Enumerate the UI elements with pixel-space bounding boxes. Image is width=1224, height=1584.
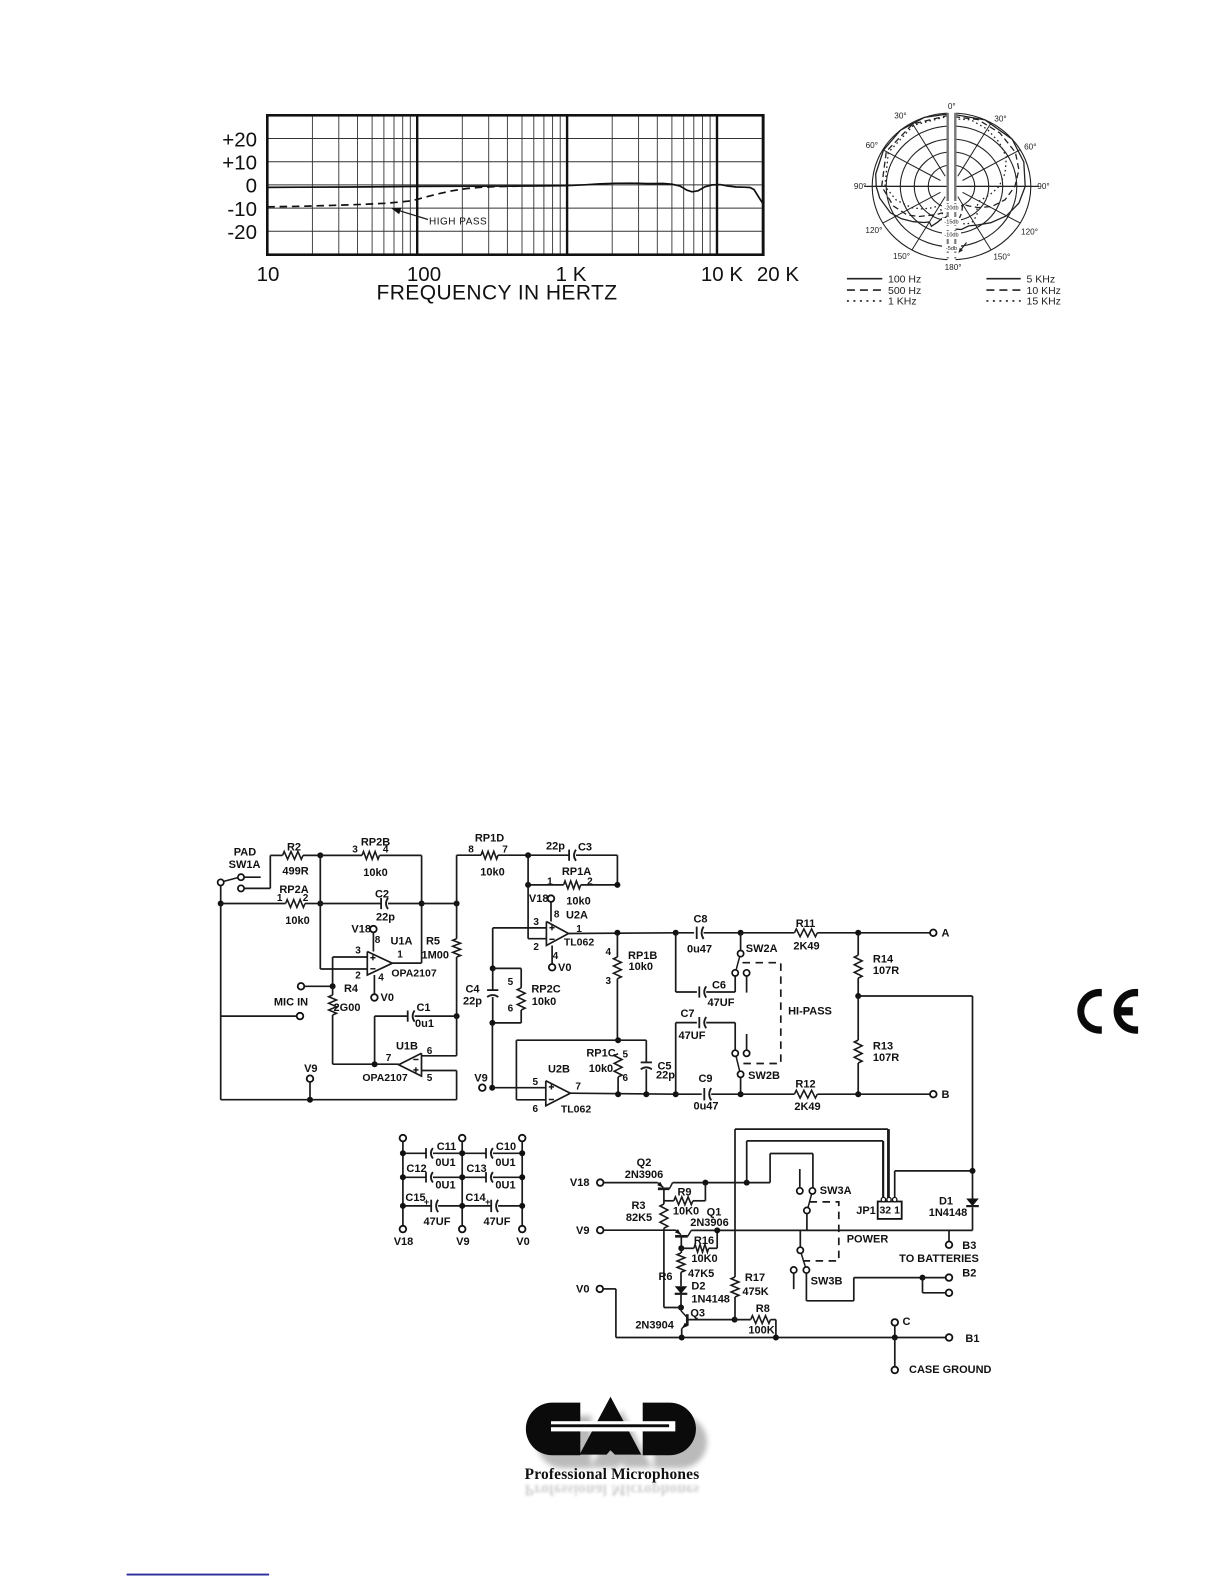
svg-text:2: 2 bbox=[587, 877, 593, 888]
node Q1 base/R16/R6 junction bbox=[678, 1245, 684, 1251]
svg-text:Professional Microphones: Professional Microphones bbox=[525, 1466, 700, 1483]
svg-text:C13: C13 bbox=[466, 1163, 486, 1175]
svg-text:1N4148: 1N4148 bbox=[929, 1207, 968, 1219]
svg-text:47UF: 47UF bbox=[708, 997, 735, 1009]
terminal B2 upper bbox=[946, 1274, 953, 1281]
svg-text:C11: C11 bbox=[437, 1141, 457, 1153]
svg-text:TL062: TL062 bbox=[561, 1103, 592, 1115]
svg-text:V9: V9 bbox=[474, 1073, 487, 1085]
capacitor C14 47UF bbox=[462, 1205, 491, 1207]
node Q3 collector/R17/R8 junction bbox=[732, 1317, 738, 1323]
wire U2B output bbox=[570, 1093, 675, 1094]
resistor RP1D 10k0 bbox=[456, 855, 458, 903]
svg-text:OPA2107: OPA2107 bbox=[391, 968, 436, 980]
terminal B bbox=[930, 1091, 937, 1098]
terminal MIC IN lower bbox=[297, 1013, 304, 1020]
node C8/SW2A junction bbox=[738, 930, 744, 936]
svg-text:10k0: 10k0 bbox=[285, 915, 309, 927]
capacitor C5 22p bbox=[618, 1039, 646, 1041]
svg-text:R5: R5 bbox=[426, 935, 440, 947]
wire JP1 inner loop bbox=[746, 1141, 748, 1183]
svg-text:RP2C: RP2C bbox=[531, 983, 560, 995]
svg-text:4: 4 bbox=[605, 947, 611, 958]
svg-text:V0: V0 bbox=[558, 962, 571, 974]
svg-text:C8: C8 bbox=[693, 913, 707, 925]
polar dB labels bbox=[942, 204, 961, 211]
svg-text:475K: 475K bbox=[742, 1286, 768, 1298]
wire U1B output to R4 bbox=[333, 1063, 399, 1065]
svg-text:MIC IN: MIC IN bbox=[274, 996, 308, 1008]
capacitor C15 47UF bbox=[403, 1205, 431, 1207]
capacitor C9 0u47 bbox=[676, 1093, 702, 1095]
wire V9 rail to U2B bbox=[491, 1023, 493, 1088]
svg-text:47UF: 47UF bbox=[679, 1030, 706, 1042]
wire U1B pin5 bbox=[422, 1070, 457, 1072]
op-amp U1B OPA2107 bbox=[399, 1053, 422, 1076]
HI-PASS dashed box bbox=[741, 963, 781, 1064]
svg-text:SW2B: SW2B bbox=[748, 1070, 780, 1082]
svg-text:2N3904: 2N3904 bbox=[635, 1319, 674, 1331]
resistor R9 10K0 bbox=[664, 1200, 674, 1202]
svg-text:2: 2 bbox=[355, 971, 361, 982]
svg-text:1M00: 1M00 bbox=[421, 949, 449, 961]
resistor R14 107R bbox=[857, 933, 859, 955]
polar curve 15 KHz (right dotted) bbox=[953, 119, 1007, 224]
wire bottom return bus bbox=[221, 1099, 457, 1101]
CE mark letter E bbox=[1114, 989, 1139, 1034]
svg-text:150°: 150° bbox=[893, 252, 910, 261]
capacitor C8 0u47 bbox=[676, 932, 694, 934]
polar radial spokes bbox=[872, 123, 1031, 250]
svg-text:3: 3 bbox=[533, 917, 539, 928]
svg-text:SW3A: SW3A bbox=[820, 1185, 852, 1197]
terminal V0 of U1A bbox=[371, 994, 378, 1001]
resistor RP2B 10k0 bbox=[320, 854, 362, 856]
capacitor C1 0u1 bbox=[374, 1016, 376, 1064]
resistor R8 100K bbox=[735, 1319, 751, 1321]
svg-text:R2: R2 bbox=[287, 841, 301, 853]
terminal V18 of U1A bbox=[370, 926, 377, 933]
wire RP2B right leg down bbox=[421, 855, 423, 963]
svg-text:R6: R6 bbox=[658, 1271, 672, 1283]
svg-text:10k0: 10k0 bbox=[629, 961, 653, 973]
svg-text:-15db: -15db bbox=[944, 220, 958, 226]
svg-text:C2: C2 bbox=[375, 888, 389, 900]
svg-text:V0: V0 bbox=[516, 1236, 529, 1248]
connector JP1 bbox=[878, 1202, 902, 1219]
svg-text:5: 5 bbox=[623, 1050, 629, 1061]
capacitor C3 22p bbox=[528, 854, 569, 856]
wire U2B pin6 feedback bbox=[516, 1099, 545, 1101]
svg-text:107R: 107R bbox=[873, 1052, 899, 1064]
resistor RP1A 10k0 bbox=[528, 884, 564, 886]
terminal V0 power bbox=[597, 1286, 604, 1293]
svg-text:10k0: 10k0 bbox=[566, 895, 590, 907]
capacitor C6 47UF bbox=[698, 986, 700, 997]
wire JP1 pin3 riser bbox=[882, 1141, 884, 1198]
wire SW2B unused contact stub bbox=[746, 1034, 748, 1050]
svg-text:+: + bbox=[424, 1197, 429, 1207]
wire SW1A top contact stub bbox=[244, 876, 261, 878]
node U2A-out/RP1B junction bbox=[614, 930, 620, 936]
svg-text:90°: 90° bbox=[1037, 182, 1049, 191]
svg-text:-5db: -5db bbox=[946, 246, 957, 252]
node R5 top junction bbox=[454, 901, 460, 907]
svg-text:0U1: 0U1 bbox=[495, 1157, 515, 1169]
decoupling junction dots bbox=[400, 1150, 406, 1156]
wire Q2 base down bbox=[663, 1189, 665, 1204]
svg-text:499R: 499R bbox=[282, 865, 308, 877]
svg-text:CASE GROUND: CASE GROUND bbox=[909, 1364, 992, 1376]
svg-text:V9: V9 bbox=[304, 1063, 317, 1075]
svg-text:B: B bbox=[942, 1089, 950, 1101]
svg-text:R17: R17 bbox=[745, 1272, 765, 1284]
capacitor C12 0U1 bbox=[403, 1176, 426, 1178]
node RP1A right junction bbox=[614, 882, 620, 888]
svg-text:82K5: 82K5 bbox=[626, 1212, 652, 1224]
wire Q1 base down bbox=[680, 1236, 682, 1248]
svg-text:0u1: 0u1 bbox=[415, 1018, 434, 1030]
wire to output B bbox=[858, 1093, 930, 1095]
resistor R17 475K bbox=[731, 1277, 739, 1297]
svg-text:JP1: JP1 bbox=[856, 1205, 876, 1217]
terminal V18 power bbox=[597, 1179, 604, 1186]
node D1 top junction bbox=[970, 1168, 976, 1174]
node V9/bus junction bbox=[307, 1097, 313, 1103]
terminal CASE GROUND bbox=[892, 1367, 899, 1374]
svg-text:B2: B2 bbox=[962, 1268, 976, 1280]
wire SW2B pole down bbox=[740, 1078, 742, 1095]
wire Q1 collector bus bbox=[691, 1229, 972, 1231]
svg-text:10K0: 10K0 bbox=[691, 1253, 717, 1265]
svg-text:HIGH PASS: HIGH PASS bbox=[429, 217, 487, 228]
svg-text:120°: 120° bbox=[865, 226, 882, 235]
wire C6 branch drop bbox=[675, 933, 677, 992]
svg-text:SW3B: SW3B bbox=[811, 1275, 843, 1287]
svg-text:C1: C1 bbox=[416, 1002, 430, 1014]
node D2/Q3 base junction bbox=[678, 1305, 684, 1311]
wire Q2 collector bus bbox=[673, 1182, 771, 1184]
node C4/RP2C bottom junction bbox=[489, 1020, 495, 1026]
resistor RP2A 10k0 bbox=[221, 903, 286, 905]
wire U2A pin4 bbox=[551, 946, 553, 965]
svg-text:5 KHz: 5 KHz bbox=[1027, 273, 1056, 285]
resistor R13 107R bbox=[857, 996, 859, 1040]
svg-text:10: 10 bbox=[257, 263, 280, 286]
wire RP1A left leg bbox=[527, 855, 529, 939]
svg-text:2: 2 bbox=[303, 893, 309, 904]
node R16/collector junction bbox=[714, 1227, 720, 1233]
svg-text:10k0: 10k0 bbox=[363, 867, 387, 879]
wire MIC IN upper to R4 bbox=[304, 985, 332, 987]
switch SW2A bbox=[740, 933, 742, 951]
wire C7 to SW2B contact bbox=[734, 1023, 736, 1050]
svg-text:7: 7 bbox=[575, 1082, 581, 1093]
svg-text:Professional Microphones: Professional Microphones bbox=[525, 1481, 700, 1498]
footer rule bbox=[127, 1574, 270, 1576]
resistor R4 2G00 bbox=[332, 986, 334, 995]
node V9/U2B junction bbox=[489, 1085, 495, 1091]
polar center channel bbox=[947, 108, 955, 262]
wire B2 upper bbox=[923, 1277, 946, 1279]
svg-text:V18: V18 bbox=[570, 1177, 590, 1189]
wire SW3A feed loop bbox=[769, 1154, 771, 1183]
svg-text:120°: 120° bbox=[1021, 227, 1038, 236]
node R9 right junction bbox=[702, 1180, 708, 1186]
transistor Q3 2N3904 bbox=[680, 1308, 682, 1311]
svg-text:R4: R4 bbox=[344, 983, 359, 995]
terminal V9 mid bbox=[479, 1084, 486, 1091]
polar channel bars bbox=[947, 113, 949, 201]
svg-text:0u47: 0u47 bbox=[693, 1101, 718, 1113]
svg-text:V9: V9 bbox=[456, 1236, 469, 1248]
decoupling rail V9 bbox=[459, 1135, 466, 1142]
svg-text:V0: V0 bbox=[381, 992, 394, 1004]
terminal V0 of U2A bbox=[549, 964, 556, 971]
svg-text:10k0: 10k0 bbox=[480, 866, 504, 878]
terminal C bbox=[892, 1319, 899, 1326]
svg-text:R9: R9 bbox=[677, 1186, 691, 1198]
svg-text:C12: C12 bbox=[406, 1163, 426, 1175]
svg-text:47UF: 47UF bbox=[424, 1216, 451, 1228]
node ground bus junction bbox=[892, 1335, 898, 1341]
svg-text:SW2A: SW2A bbox=[746, 943, 778, 955]
svg-text:4: 4 bbox=[378, 973, 384, 984]
wire case ground stub bbox=[894, 1338, 896, 1367]
node R4 top junction bbox=[330, 983, 336, 989]
resistor R3 82K5 bbox=[660, 1204, 668, 1228]
polar curve end arrow bbox=[960, 243, 967, 252]
wire U1A pin2 input bbox=[320, 968, 367, 970]
wire RP2C top link bbox=[493, 967, 522, 969]
wire Q3 collector bbox=[687, 1319, 734, 1321]
polar curve 10 KHz (right dashed) bbox=[953, 117, 1019, 225]
svg-text:30°: 30° bbox=[894, 112, 906, 121]
svg-text:-20: -20 bbox=[227, 221, 257, 244]
svg-text:RP1D: RP1D bbox=[475, 832, 504, 844]
svg-text:90°: 90° bbox=[854, 182, 866, 191]
terminal V18 of U2A bbox=[548, 895, 555, 902]
resistor R11 2K49 bbox=[741, 932, 795, 934]
svg-text:22p: 22p bbox=[376, 911, 395, 923]
svg-text:60°: 60° bbox=[1024, 142, 1036, 151]
wire R3 to D2 junction bbox=[664, 1307, 681, 1309]
frequency response solid curve bbox=[267, 183, 763, 204]
polar grid circles bbox=[872, 113, 1031, 260]
svg-text:HI-PASS: HI-PASS bbox=[788, 1006, 832, 1018]
decoupling rail V18 bbox=[400, 1135, 407, 1142]
resistor RP2C 10k0 bbox=[517, 988, 525, 1010]
wire U1A pin3 input bbox=[333, 956, 368, 958]
node RP2A/C2 junction bbox=[317, 901, 323, 907]
svg-text:4: 4 bbox=[553, 951, 559, 962]
svg-text:0U1: 0U1 bbox=[435, 1180, 455, 1192]
wire battery feed bbox=[858, 995, 972, 997]
diode D1 1N4148 bbox=[972, 1171, 974, 1199]
svg-text:3: 3 bbox=[355, 946, 361, 957]
switch SW1A (PAD) bbox=[218, 879, 224, 885]
svg-text:U1A: U1A bbox=[390, 935, 412, 947]
svg-text:R8: R8 bbox=[756, 1303, 770, 1315]
svg-text:2G00: 2G00 bbox=[334, 1002, 361, 1014]
svg-text:Q2: Q2 bbox=[637, 1157, 652, 1169]
svg-text:R3: R3 bbox=[631, 1200, 645, 1212]
svg-text:C7: C7 bbox=[680, 1008, 694, 1020]
op-amp U2A TL062 bbox=[546, 922, 568, 946]
capacitor C4 22p bbox=[492, 968, 494, 990]
svg-text:22p: 22p bbox=[656, 1070, 675, 1082]
node RP1C bottom junction bbox=[615, 1091, 621, 1097]
svg-text:47K5: 47K5 bbox=[688, 1268, 714, 1280]
svg-text:C3: C3 bbox=[578, 841, 592, 853]
capacitor C13 0U1 bbox=[462, 1176, 486, 1178]
resistor R6 47K5 bbox=[680, 1248, 682, 1253]
svg-text:V9: V9 bbox=[576, 1225, 589, 1237]
svg-text:V18: V18 bbox=[351, 924, 371, 936]
svg-text:A: A bbox=[942, 927, 950, 939]
node R14/R13 junction bbox=[855, 993, 861, 999]
wire MIC IN lower to left bus bbox=[221, 1015, 297, 1017]
svg-text:10k0: 10k0 bbox=[589, 1063, 613, 1075]
resistor R16 10K0 bbox=[681, 1247, 694, 1249]
wire C stub bbox=[894, 1326, 896, 1338]
svg-text:RP1B: RP1B bbox=[628, 950, 657, 962]
wire SW2A unused contact stub bbox=[746, 976, 748, 993]
svg-text:RP1C: RP1C bbox=[586, 1047, 615, 1059]
svg-text:C6: C6 bbox=[712, 979, 726, 991]
svg-text:4: 4 bbox=[383, 845, 389, 856]
svg-text:150°: 150° bbox=[993, 253, 1010, 262]
wire U1A pin8 bbox=[372, 932, 374, 951]
wire U1A pin4 bbox=[373, 975, 375, 994]
logo wordmark bbox=[525, 1481, 700, 1498]
svg-text:SW1A: SW1A bbox=[229, 859, 261, 871]
svg-text:10k0: 10k0 bbox=[532, 996, 556, 1008]
wire JP1 pin1 riser bbox=[894, 1171, 896, 1198]
wire U2A output bbox=[569, 932, 676, 935]
svg-text:2N3906: 2N3906 bbox=[625, 1169, 664, 1181]
svg-text:U2A: U2A bbox=[566, 909, 588, 921]
frequency response chart grid bbox=[267, 115, 763, 254]
terminal B3 bbox=[946, 1242, 953, 1249]
wire U2A pin3 input bbox=[493, 927, 547, 929]
transistor Q1 2N3906 bbox=[676, 1230, 681, 1235]
node B2 junction bbox=[920, 1275, 926, 1281]
svg-text:TO BATTERIES: TO BATTERIES bbox=[899, 1253, 979, 1265]
op-amp U1A OPA2107 bbox=[367, 952, 392, 976]
wire V18 to Q2 emitter bbox=[604, 1182, 658, 1184]
wire to output A bbox=[858, 932, 930, 934]
svg-text:6: 6 bbox=[508, 1003, 514, 1014]
svg-text:22p: 22p bbox=[463, 995, 482, 1007]
node RP1D/C3 junction bbox=[525, 852, 531, 858]
polar legend bbox=[847, 278, 882, 280]
svg-text:OPA2107: OPA2107 bbox=[362, 1072, 407, 1084]
capacitor C2 22p bbox=[320, 903, 381, 905]
node JP1 riser junction bbox=[744, 1180, 750, 1186]
svg-text:107R: 107R bbox=[873, 965, 899, 977]
svg-text:3: 3 bbox=[352, 845, 358, 856]
svg-text:30°: 30° bbox=[994, 115, 1006, 124]
svg-text:8: 8 bbox=[375, 935, 381, 946]
CE mark letter C bbox=[1077, 989, 1102, 1034]
wire U1B pin6 feedback bbox=[422, 1055, 457, 1057]
svg-text:C15: C15 bbox=[405, 1192, 425, 1204]
svg-text:R13: R13 bbox=[873, 1040, 893, 1052]
node C4/RP2C top junction bbox=[490, 965, 496, 971]
svg-text:Q3: Q3 bbox=[690, 1307, 705, 1319]
svg-text:20 K: 20 K bbox=[757, 263, 799, 286]
svg-text:V0: V0 bbox=[576, 1284, 589, 1296]
svg-text:C4: C4 bbox=[465, 983, 480, 995]
svg-text:100K: 100K bbox=[748, 1324, 774, 1336]
wire JP1 pin2 riser bbox=[888, 1129, 890, 1197]
capacitor C11 0U1 bbox=[403, 1152, 426, 1154]
wire U2A pin8 bbox=[550, 902, 552, 922]
svg-text:R16: R16 bbox=[694, 1235, 714, 1247]
wire V0 to ground bus bbox=[603, 1288, 616, 1290]
node C5 bottom junction bbox=[643, 1091, 649, 1097]
svg-text:-10db: -10db bbox=[944, 233, 958, 239]
svg-text:7: 7 bbox=[386, 1053, 392, 1064]
svg-text:0: 0 bbox=[246, 175, 257, 198]
terminal V9 power bbox=[597, 1227, 604, 1234]
wire U2B pin5 input bbox=[492, 1087, 546, 1089]
wire V9 to Q1 emitter bbox=[604, 1229, 676, 1231]
wire left input bus vertical bbox=[220, 904, 222, 1100]
wire output bus to R5 bbox=[422, 903, 457, 905]
polar curve 100 Hz (left solid) bbox=[876, 114, 951, 227]
svg-text:PAD: PAD bbox=[234, 846, 256, 858]
svg-text:R11: R11 bbox=[796, 918, 816, 930]
svg-text:32 1: 32 1 bbox=[879, 1205, 900, 1217]
terminal V9 left bbox=[307, 1075, 314, 1082]
svg-text:U1B: U1B bbox=[396, 1040, 418, 1052]
svg-text:-20db: -20db bbox=[944, 206, 958, 212]
switch SW3A bbox=[797, 1188, 803, 1194]
svg-text:0u47: 0u47 bbox=[687, 943, 712, 955]
svg-text:180°: 180° bbox=[945, 263, 962, 272]
wire SW1A pole down to input bus bbox=[220, 886, 222, 904]
decoupling rail V0 bbox=[519, 1135, 526, 1142]
svg-text:POWER: POWER bbox=[847, 1233, 889, 1245]
wire SW3A pole down bbox=[806, 1214, 808, 1231]
wire C3 right leg down bbox=[616, 855, 618, 885]
wire U1A output bbox=[392, 962, 421, 964]
node R13/R12 junction bbox=[855, 1091, 861, 1097]
svg-text:C14: C14 bbox=[465, 1192, 486, 1204]
svg-text:R12: R12 bbox=[795, 1078, 815, 1090]
svg-text:TL062: TL062 bbox=[564, 937, 595, 949]
terminal B2 lower bbox=[946, 1290, 953, 1297]
svg-text:1N4148: 1N4148 bbox=[691, 1293, 730, 1305]
svg-text:R14: R14 bbox=[873, 953, 894, 965]
resistor R2 499R bbox=[270, 854, 282, 856]
node U2A-out/C6 branch junction bbox=[673, 930, 679, 936]
svg-text:10K0: 10K0 bbox=[673, 1206, 699, 1218]
svg-text:7: 7 bbox=[502, 845, 508, 856]
svg-text:V18: V18 bbox=[394, 1236, 414, 1248]
logo band bbox=[551, 1421, 675, 1431]
node R11/R14 junction bbox=[855, 930, 861, 936]
svg-text:100 Hz: 100 Hz bbox=[888, 273, 921, 285]
svg-text:2N3906: 2N3906 bbox=[690, 1217, 729, 1229]
svg-text:C9: C9 bbox=[698, 1073, 712, 1085]
wire B2 lower bbox=[922, 1278, 924, 1293]
svg-text:+10: +10 bbox=[222, 152, 257, 175]
high-pass dashed curve bbox=[267, 186, 520, 207]
HIGH PASS annotation arrow bbox=[397, 210, 429, 220]
